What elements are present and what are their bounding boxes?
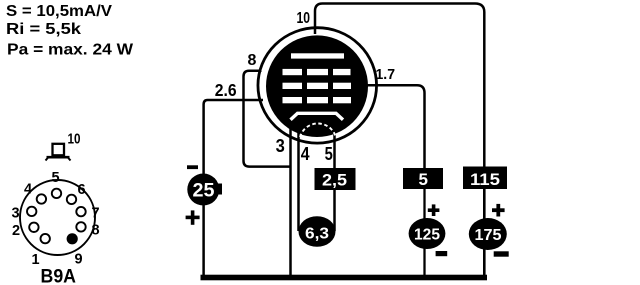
svg-text:2,5: 2,5 xyxy=(322,171,347,190)
ground bus xyxy=(201,275,488,281)
svg-text:7: 7 xyxy=(92,206,100,222)
svg-text:Ri = 5,5k: Ri = 5,5k xyxy=(6,21,81,38)
battery 25 (grid bias) minus mark xyxy=(187,165,198,169)
pentode electrode disc xyxy=(266,35,368,137)
wire 2,5 label to 6,3 source xyxy=(333,189,336,231)
svg-text:5: 5 xyxy=(325,143,333,164)
svg-text:25: 25 xyxy=(193,181,215,202)
source 125 plus mark xyxy=(428,208,440,212)
source 125 minus mark xyxy=(436,251,448,256)
wire g2 (1.7) to screen supply xyxy=(366,85,425,168)
svg-text:10: 10 xyxy=(297,10,311,27)
wire screen branch: 5 label to 125 source to bus xyxy=(423,189,425,219)
source 175 plus mark xyxy=(492,208,505,212)
B9A pin 7 hole xyxy=(76,207,85,216)
wire g3 pin 8 to cathode line xyxy=(244,71,291,167)
grid g3 dashes xyxy=(283,69,303,75)
cathode bar (white) xyxy=(291,113,344,120)
svg-text:6,3: 6,3 xyxy=(305,226,329,243)
B9A pin 2 hole xyxy=(29,223,38,232)
label 115 (anode current?) box xyxy=(463,167,507,190)
svg-text:8: 8 xyxy=(248,52,257,69)
B9A pin 8 hole xyxy=(76,222,85,231)
anode bar (white) xyxy=(291,53,344,58)
B9A pin 9 hole (marked) xyxy=(67,233,78,244)
svg-text:9: 9 xyxy=(75,252,83,268)
svg-text:3: 3 xyxy=(12,206,20,222)
wire pin10 anode to HT+ rail and down to 175 branch xyxy=(315,4,484,169)
svg-text:5: 5 xyxy=(52,170,60,186)
B9A pin 3 hole xyxy=(27,207,36,216)
grid g2 dashes xyxy=(283,83,303,89)
svg-text:1.7: 1.7 xyxy=(376,67,396,83)
svg-text:115: 115 xyxy=(470,170,500,189)
source 175 (anode supply) body xyxy=(469,218,507,250)
svg-text:3: 3 xyxy=(276,135,285,156)
label 2,5 (heater current) box xyxy=(315,168,356,190)
svg-text:175: 175 xyxy=(475,227,502,244)
battery 25 body xyxy=(187,174,219,206)
wire anode branch: 115 label to 175 source to bus xyxy=(483,189,486,219)
svg-text:1: 1 xyxy=(32,252,40,268)
source 175 minus mark xyxy=(494,251,509,256)
svg-text:2: 2 xyxy=(12,223,20,239)
grid g1 dashes xyxy=(283,97,303,103)
battery 25 plus mark xyxy=(186,216,200,220)
svg-text:8: 8 xyxy=(92,223,100,239)
heater arc (white dashed) xyxy=(300,123,336,137)
source 125 (screen supply) body xyxy=(409,218,446,249)
svg-text:S = 10,5mA/V: S = 10,5mA/V xyxy=(6,3,113,20)
svg-text:5: 5 xyxy=(419,170,428,189)
svg-text:125: 125 xyxy=(414,227,440,244)
svg-text:2.6: 2.6 xyxy=(215,80,237,100)
wire g1 (2.6) to bias battery xyxy=(204,100,263,276)
svg-text:4: 4 xyxy=(24,182,32,198)
B9A pin 4 hole xyxy=(37,194,46,203)
svg-text:6: 6 xyxy=(78,182,86,198)
label 5 (screen current) box xyxy=(403,168,443,189)
B9A pin 6 hole xyxy=(67,195,76,204)
wire heater pin 5 down to 2,5 label xyxy=(333,131,336,169)
wire cathode pin 3 to ground bus xyxy=(289,127,292,276)
svg-text:10: 10 xyxy=(68,131,81,147)
source 6,3 (heater supply) body xyxy=(299,216,336,247)
svg-text:Pa = max. 24 W: Pa = max. 24 W xyxy=(7,42,133,59)
wire heater pin 4 down to 6,3 source xyxy=(297,131,300,231)
B9A pin 1 hole xyxy=(41,234,50,243)
svg-text:4: 4 xyxy=(301,143,310,164)
B9A base outline xyxy=(20,180,95,255)
svg-text:B9A: B9A xyxy=(41,267,77,285)
pentode envelope outer circle xyxy=(258,28,377,143)
top-cap symbol (anode cap, pin 10) xyxy=(46,144,71,161)
B9A pin 5 hole xyxy=(52,189,61,198)
